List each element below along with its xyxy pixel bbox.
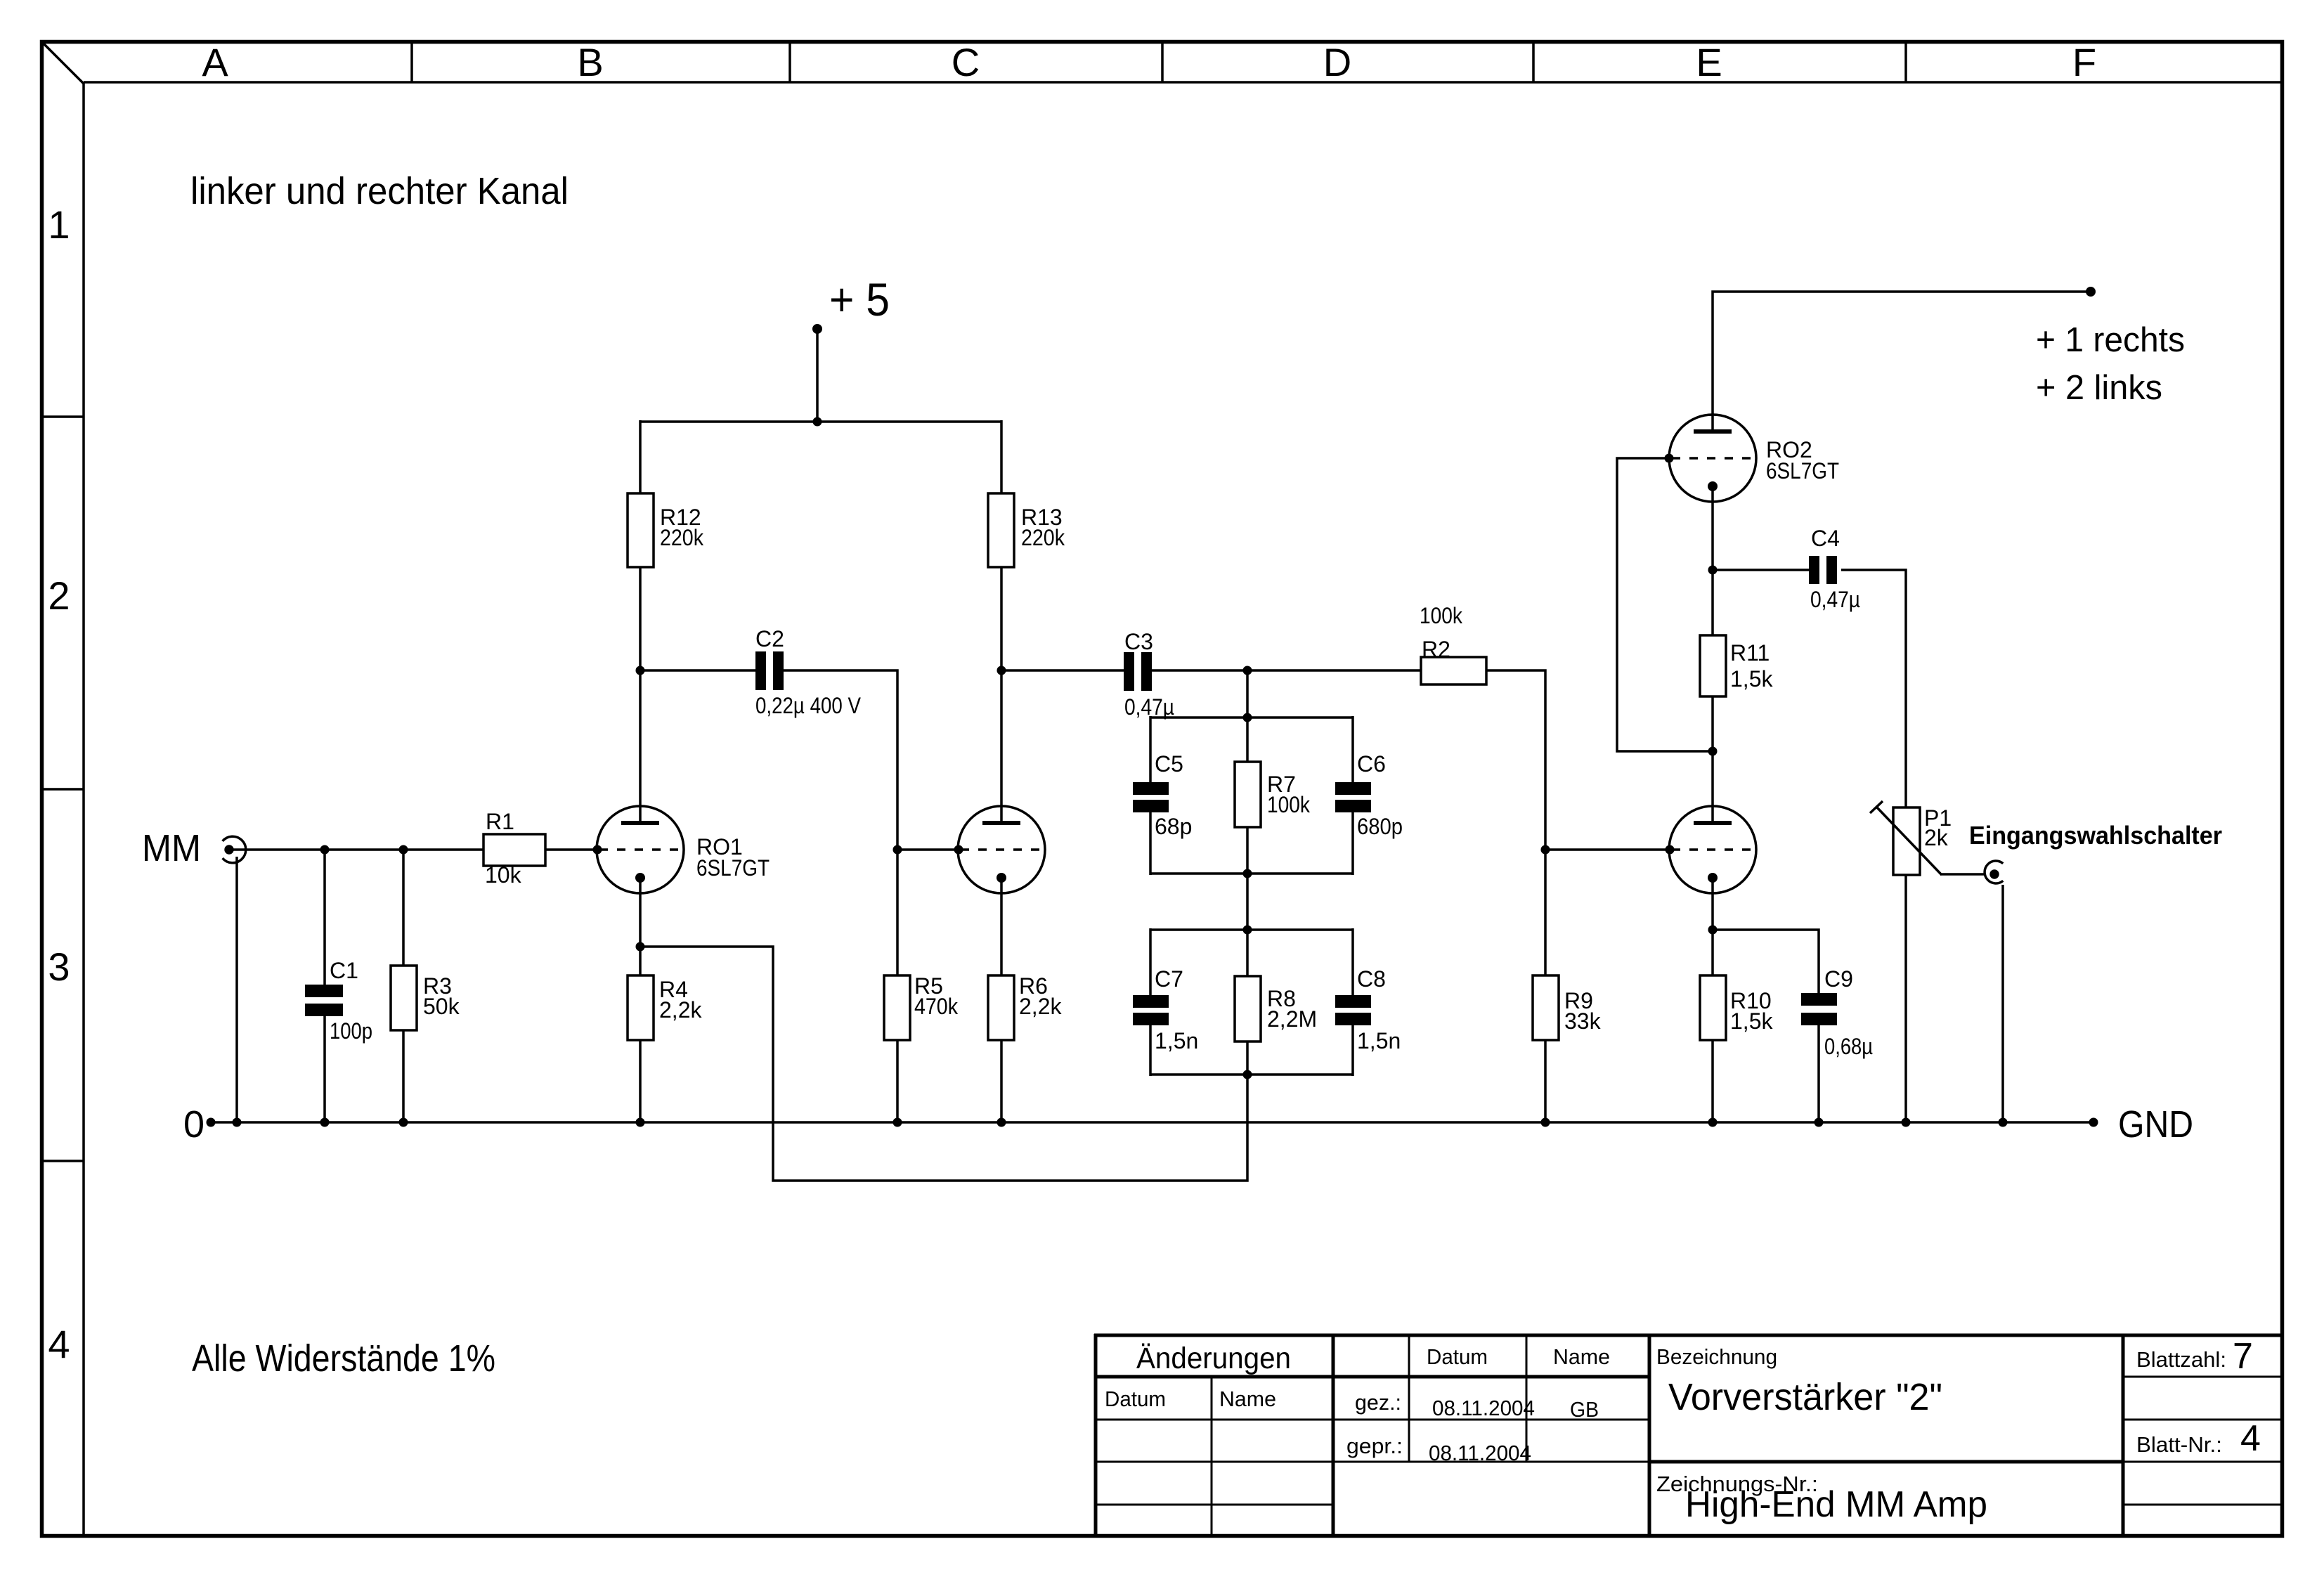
resistor R3 — [391, 966, 417, 1030]
wire RO2 grid 2 — [1545, 848, 1670, 851]
potentiometer P1 — [1893, 807, 1920, 875]
svg-text:Datum: Datum — [1105, 1387, 1166, 1411]
junction dot RO2 grid2 rim — [1666, 845, 1675, 855]
wire feedback from RO1 cathode — [640, 947, 1247, 1181]
svg-text:C1: C1 — [330, 958, 358, 983]
wire RO1 cathode lead — [639, 878, 642, 975]
junction dot +5 terminal — [812, 324, 822, 334]
wire cathode1 to C4 — [1713, 569, 1809, 571]
wire C1 bottom lead — [323, 1016, 326, 1122]
junction dot riaa lower top — [1243, 926, 1252, 935]
junction dot anode2 rail — [997, 666, 1006, 675]
capacitor C3 — [1124, 652, 1134, 691]
junction dot tube2 grid rim — [954, 845, 963, 855]
junction dot input node C1 — [320, 845, 330, 855]
frame header divider B|C — [788, 42, 791, 82]
svg-text:2,2M: 2,2M — [1267, 1006, 1317, 1032]
tube RO2 triode B — [1669, 806, 1756, 893]
junction dot ground R6 — [997, 1118, 1006, 1127]
svg-text:Blattzahl:: Blattzahl: — [2136, 1347, 2226, 1372]
svg-text:B: B — [577, 40, 603, 84]
svg-text:4: 4 — [48, 1322, 70, 1366]
svg-text:6SL7GT: 6SL7GT — [1766, 458, 1839, 484]
svg-text:4: 4 — [2240, 1418, 2261, 1459]
svg-text:Alle Widerstände 1%: Alle Widerstände 1% — [192, 1337, 495, 1380]
wire R8 bottom leg — [1246, 1041, 1249, 1075]
wire P1 bottom to ground — [1904, 875, 1907, 1122]
junction dot riaa upper top — [1243, 713, 1252, 722]
svg-text:08.11.2004: 08.11.2004 — [1429, 1441, 1531, 1465]
svg-text:08.11.2004: 08.11.2004 — [1432, 1396, 1535, 1420]
svg-text:Bezeichnung: Bezeichnung — [1656, 1344, 1777, 1369]
wire C8 bottom leg — [1351, 1025, 1354, 1076]
junction dot anode1 rail — [636, 666, 645, 675]
svg-text:0: 0 — [183, 1103, 205, 1146]
+5 rail wire — [640, 420, 1001, 423]
wire R8 top leg — [1246, 930, 1249, 976]
wire R7 top leg — [1246, 718, 1249, 762]
wire C6 top leg — [1351, 716, 1354, 782]
junction dot output terminal — [2086, 287, 2096, 297]
svg-text:R11: R11 — [1730, 640, 1770, 666]
junction dot ground left end — [207, 1118, 216, 1127]
wire output jack shell to ground — [2001, 885, 2004, 1122]
svg-text:R1: R1 — [486, 809, 514, 834]
svg-text:C8: C8 — [1357, 966, 1386, 992]
svg-text:1: 1 — [48, 202, 70, 247]
junction dot ground R5 — [893, 1118, 902, 1127]
wire R9 bottom to ground — [1544, 1040, 1547, 1122]
wire R12 bottom to RO1 anode — [639, 567, 642, 823]
junction dot ground C9 — [1815, 1118, 1824, 1127]
title block outline thick lines — [1094, 1334, 2280, 1536]
svg-text:470k: 470k — [914, 994, 959, 1019]
resistor R12 — [628, 493, 654, 567]
svg-text:C4: C4 — [1811, 526, 1840, 551]
junction dot grid2 corner — [893, 845, 902, 855]
wire riaa node down from rail — [1246, 670, 1249, 718]
junction dot input node R3 — [399, 845, 408, 855]
svg-text:Blatt-Nr.:: Blatt-Nr.: — [2136, 1432, 2222, 1457]
frame header divider D|E — [1532, 42, 1535, 82]
wire MM connector down to ground — [235, 857, 238, 1122]
resistor R2 — [1421, 657, 1486, 684]
svg-text:2k: 2k — [1924, 825, 1949, 850]
frame left inner vertical — [82, 82, 85, 1536]
input connector MM — [223, 836, 246, 863]
wire C5 bottom leg — [1149, 812, 1152, 875]
svg-text:C9: C9 — [1824, 966, 1853, 992]
capacitor C8 — [1335, 995, 1371, 1008]
junction dot RO2 cathode2 node — [1708, 926, 1718, 935]
svg-text:680p: 680p — [1357, 814, 1403, 839]
junction dot R11 bottom node — [1708, 747, 1718, 756]
svg-text:C6: C6 — [1357, 751, 1386, 777]
title block thin grid lines — [1096, 1335, 2280, 1536]
svg-text:7: 7 — [2233, 1336, 2253, 1377]
wire C6 bottom leg — [1351, 812, 1354, 875]
resistor R13 — [988, 493, 1014, 567]
riaa lower block top bus — [1150, 928, 1353, 931]
svg-text:1,5n: 1,5n — [1357, 1028, 1401, 1053]
tube RO1 triode B — [958, 806, 1045, 893]
resistor R11 — [1700, 635, 1726, 696]
wire R5 top lead — [896, 850, 899, 975]
capacitor C1 — [305, 985, 343, 997]
+5 supply lead — [816, 329, 819, 422]
wire C5 top leg — [1149, 716, 1152, 782]
wire R13 bottom to tube 2 anode — [1000, 567, 1003, 823]
svg-text:220k: 220k — [660, 525, 704, 550]
wire between riaa blocks — [1246, 874, 1249, 930]
junction dot ground right end — [2089, 1118, 2098, 1127]
svg-text:2: 2 — [48, 573, 70, 618]
svg-text:+ 1 rechts: + 1 rechts — [2036, 321, 2185, 359]
svg-text:Änderungen: Änderungen — [1136, 1342, 1291, 1375]
junction dot ground R3 — [399, 1118, 408, 1127]
svg-text:10k: 10k — [485, 862, 522, 888]
svg-text:68p: 68p — [1155, 814, 1192, 839]
wire C2 to grid 2 corner — [784, 670, 897, 850]
junction dot RO2 cathode1 node — [1708, 566, 1718, 575]
junction dot ground P1 — [1902, 1118, 1911, 1127]
svg-text:1,5n: 1,5n — [1155, 1028, 1198, 1053]
riaa upper block bottom bus — [1150, 872, 1353, 875]
junction dot RO2 grid1 rim — [1665, 454, 1674, 463]
svg-text:C2: C2 — [755, 626, 784, 651]
frame row divider 3|4 — [42, 1160, 84, 1162]
svg-text:100k: 100k — [1267, 792, 1311, 817]
svg-text:3: 3 — [48, 945, 70, 989]
wire R6 bottom to ground — [1000, 1040, 1003, 1122]
svg-text:E: E — [1696, 40, 1722, 84]
frame row divider 1|2 — [42, 415, 84, 418]
junction dot riaa lower bottom — [1243, 1070, 1252, 1079]
resistor R5 — [884, 975, 910, 1040]
ground rail 0 — [211, 1121, 2093, 1124]
svg-text:Vorverstärker "2": Vorverstärker "2" — [1668, 1376, 1942, 1418]
junction dot +5 rail — [813, 417, 822, 427]
svg-text:100k: 100k — [1420, 603, 1463, 628]
capacitor C9 — [1801, 993, 1837, 1006]
capacitor C6 — [1335, 782, 1371, 795]
wire grid 2 to tube — [897, 848, 959, 851]
junction dot ground R4 — [636, 1118, 645, 1127]
svg-text:gez.:: gez.: — [1355, 1390, 1401, 1415]
wire RO2 cathode 2 lead — [1711, 878, 1714, 975]
riaa upper block top bus — [1150, 716, 1353, 719]
resistor R1 — [483, 834, 545, 866]
svg-text:D: D — [1323, 40, 1351, 84]
junction dot riaa upper bottom — [1243, 869, 1252, 878]
svg-text:0,22µ 400 V: 0,22µ 400 V — [755, 693, 862, 718]
wire C7 top leg — [1149, 928, 1152, 995]
capacitor C4 — [1809, 556, 1819, 584]
resistor R9 — [1533, 975, 1559, 1040]
svg-text:+ 5: + 5 — [829, 273, 890, 325]
svg-text:0,47µ: 0,47µ — [1810, 587, 1860, 612]
wire R11 bottom to junction — [1711, 696, 1714, 823]
wire C3 to R2 — [1152, 669, 1421, 672]
svg-text:A: A — [202, 40, 228, 84]
svg-text:linker und rechter Kanal: linker und rechter Kanal — [190, 170, 569, 212]
svg-text:R2: R2 — [1422, 637, 1450, 662]
junction dot riaa rail node — [1243, 666, 1252, 675]
wire C4 to P1 column — [1841, 570, 1906, 807]
wire R1 to RO1 grid — [545, 848, 597, 851]
capacitor C7 — [1133, 995, 1169, 1008]
wire anode rail to C2 — [640, 669, 755, 672]
junction dot ground jack shell — [1999, 1118, 2008, 1127]
svg-text:50k: 50k — [423, 994, 460, 1019]
svg-text:0,47µ: 0,47µ — [1124, 694, 1174, 720]
junction dot tube1 grid rim — [593, 845, 602, 855]
wire R3 bottom lead — [402, 1030, 405, 1122]
riaa lower block bottom bus — [1150, 1073, 1353, 1076]
svg-text:MM: MM — [142, 827, 201, 869]
svg-text:2,2k: 2,2k — [659, 997, 702, 1023]
frame header divider E|F — [1904, 42, 1907, 82]
svg-text:1,5k: 1,5k — [1730, 1008, 1773, 1034]
wire P1 wiper to output jack — [1941, 873, 1985, 876]
wire C1 top lead — [323, 850, 326, 985]
wire cathode2 to C9 — [1713, 930, 1819, 993]
capacitor C2 — [755, 651, 766, 690]
wire C7 bottom leg — [1149, 1025, 1152, 1076]
svg-text:Name: Name — [1553, 1344, 1610, 1369]
wire tube2 cathode lead — [1000, 878, 1003, 975]
tube RO2 triode A — [1669, 415, 1756, 502]
wire RO2 cathode 1 lead — [1711, 486, 1714, 635]
junction dot ground C1 — [320, 1118, 330, 1127]
wire RO2 anode to output terminal — [1713, 292, 2091, 434]
svg-text:+ 2 links: + 2 links — [2036, 369, 2162, 407]
junction dot RO2 grid2 column — [1541, 845, 1550, 855]
resistor R6 — [988, 975, 1014, 1040]
svg-text:C7: C7 — [1155, 966, 1183, 992]
frame header divider C|D — [1161, 42, 1164, 82]
wire R2 to RO2 grid column — [1486, 670, 1545, 975]
junction dot RO1 cathode node — [636, 942, 645, 952]
svg-text:gepr.:: gepr.: — [1346, 1434, 1403, 1458]
svg-text:100p: 100p — [330, 1018, 372, 1044]
wire +5 rail to R13 — [1000, 420, 1003, 493]
svg-text:6SL7GT: 6SL7GT — [696, 855, 770, 881]
wire R10 bottom to ground — [1711, 1040, 1714, 1122]
frame header divider A|B — [410, 42, 413, 82]
resistor R10 — [1700, 975, 1726, 1040]
resistor R4 — [628, 975, 654, 1040]
input wire MM to R1 — [231, 848, 483, 851]
junction dot ground MM — [233, 1118, 242, 1127]
wire anode 2 rail to C3 — [1001, 669, 1124, 672]
frame corner diagonal — [42, 42, 84, 84]
wire C8 top leg — [1351, 928, 1354, 995]
svg-text:220k: 220k — [1021, 525, 1065, 550]
wire R4 bottom to ground — [639, 1040, 642, 1122]
svg-text:1,5k: 1,5k — [1730, 666, 1773, 692]
output connector jack — [1985, 861, 2003, 883]
svg-text:C3: C3 — [1124, 629, 1153, 654]
resistor R7 — [1235, 762, 1261, 827]
svg-text:2,2k: 2,2k — [1019, 994, 1062, 1019]
resistor R8 — [1235, 976, 1261, 1041]
wire RO2 grid 1 feedback — [1617, 458, 1713, 751]
svg-text:Eingangswahlschalter: Eingangswahlschalter — [1969, 821, 2222, 850]
svg-text:C5: C5 — [1155, 751, 1183, 777]
frame row divider 2|3 — [42, 788, 84, 791]
svg-text:Name: Name — [1219, 1387, 1276, 1411]
frame header bottom line — [84, 81, 2280, 84]
svg-text:GB: GB — [1570, 1397, 1599, 1422]
svg-text:GND: GND — [2118, 1103, 2193, 1146]
svg-text:Datum: Datum — [1427, 1344, 1488, 1369]
svg-text:C: C — [952, 40, 980, 84]
tube RO1 triode A — [597, 806, 684, 893]
svg-text:33k: 33k — [1564, 1008, 1602, 1034]
wire C9 bottom to ground — [1817, 1025, 1820, 1122]
capacitor C5 — [1133, 782, 1169, 795]
wire +5 rail to R12 — [639, 420, 642, 493]
junction dot ground R10 — [1708, 1118, 1718, 1127]
wire R3 top lead — [402, 850, 405, 966]
junction dot ground R9 — [1541, 1118, 1550, 1127]
svg-text:High-End MM Amp: High-End MM Amp — [1685, 1484, 1987, 1525]
svg-text:0,68µ: 0,68µ — [1824, 1034, 1873, 1059]
svg-text:F: F — [2072, 40, 2096, 84]
wire R5 bottom to ground — [896, 1040, 899, 1122]
wire R7 bottom leg — [1246, 827, 1249, 874]
